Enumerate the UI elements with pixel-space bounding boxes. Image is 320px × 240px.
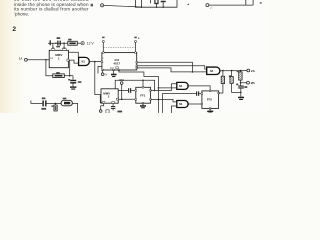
value speck: [244, 86, 247, 88]
page background: [0, 0, 267, 113]
FF1 upper out to N2: [151, 84, 177, 91]
fig1 left terminal label: [91, 4, 93, 7]
label speck C: [236, 84, 238, 86]
IC2 ground: [113, 70, 115, 74]
wire L1: [137, 62, 193, 72]
MMV2 bottom stub 2 with cap: [112, 103, 114, 106]
FF2 input capacitor: [196, 91, 197, 95]
cream left band: [0, 0, 27, 113]
IC2 bottom 0V terminal: [102, 70, 104, 73]
capacitor C1 plate: [50, 40, 51, 45]
FF2: [201, 90, 219, 109]
wire MMV1 pin down: [69, 60, 71, 76]
stadium resistor: [61, 100, 72, 106]
hanging resistor: [55, 103, 57, 105]
FF2 right pin riser: [219, 84, 223, 93]
value 100n: [41, 108, 46, 110]
MMV2 bottom stub left to terminal: [101, 103, 104, 110]
MMV2 top pin to bus A: [115, 80, 154, 90]
label R2: [68, 39, 71, 41]
output ground: [238, 97, 244, 99]
fig1 stub left: [245, 0, 247, 5]
wire N3 out to FF2: [187, 103, 202, 105]
wire N4 out to 2A: [220, 70, 247, 72]
fig1 box bottom rail: [136, 0, 178, 7]
wire W4: IC2 bottom pin to bus B: [119, 70, 158, 113]
svg-text:12 V: 12 V: [87, 42, 95, 46]
dashed supply rail: [103, 47, 135, 49]
node: [55, 103, 57, 105]
label C: [68, 79, 70, 81]
output resistor Rb: [231, 70, 233, 72]
wire N1 bus to MMV2: [95, 62, 102, 103]
svg-text:2: 2: [12, 26, 16, 33]
wire cap to FF1: [131, 89, 136, 91]
fig1 relay coil: [155, 0, 158, 4]
wire Rc to 2B and cap: [241, 80, 247, 83]
output resistor Rc: [240, 70, 242, 72]
MMV2 lower right pin wire: [118, 98, 122, 100]
IC2 supply stub 2: [135, 40, 137, 42]
wire N1 out to IC2: [89, 61, 102, 63]
label speck Rc: [237, 71, 239, 73]
fig1 left wire sloped: [104, 5, 141, 7]
output capacitor: [238, 86, 244, 87]
wire MMV1 top to N1: [68, 52, 78, 57]
wire C3 to node: [47, 102, 62, 104]
capacitor C3: [42, 100, 43, 106]
label C3: [42, 98, 46, 100]
fig1 left terminal circle: [101, 4, 104, 7]
IC2 supply stub 1: [102, 40, 136, 52]
wire out right down: [72, 103, 77, 113]
FF1 top pin from bus A line: [142, 80, 144, 87]
IC2 pin squares: [101, 61, 103, 63]
ground: [70, 86, 76, 87]
MMV2 pin boxes bottom: [103, 102, 105, 104]
node bus A top tap: [154, 90, 156, 92]
fig1 small mark: [210, 7, 212, 10]
fig1 capacitor: [161, 1, 166, 3]
wire MMV1 out to N1: [69, 60, 79, 63]
MMV2 pin box right: [116, 98, 118, 100]
wire MMV1 top pin drops: [52, 43, 54, 48]
IC2 left lower stub: [98, 66, 102, 73]
wire down to R1 row: [46, 60, 53, 76]
node L1/L3: [192, 71, 194, 73]
svg-text:4017: 4017: [113, 61, 120, 65]
terminal 2B: [247, 81, 250, 84]
value speck: [118, 111, 123, 113]
MMV2 out to coupling cap: [118, 89, 128, 91]
label speck: [63, 98, 67, 100]
supply labels: [102, 37, 105, 39]
fig1 blob mark: [187, 4, 189, 6]
label R1: [56, 72, 60, 74]
fig1 stem 1: [141, 0, 143, 7]
gate N2: [177, 82, 188, 89]
body text block: [14, 0, 89, 16]
label speck Rb: [229, 75, 231, 77]
FF1: [135, 87, 151, 105]
resistor R1: [53, 74, 65, 78]
fig1 terminal: [206, 4, 209, 7]
FF2 riser resistor Ra: [222, 70, 224, 72]
FF1 lower out to N3: [151, 99, 177, 102]
svg-text:’phone.: ’phone.: [14, 11, 29, 16]
resistor R2: [68, 41, 78, 45]
node: [69, 75, 71, 77]
supply rail 12V: [48, 42, 68, 44]
label C2: [57, 37, 61, 39]
FF2 bottom ground: [209, 108, 211, 110]
FF1 bottom ground: [142, 103, 144, 105]
capacitor C timing: [72, 76, 74, 80]
svg-text:FF1: FF1: [140, 93, 145, 97]
svg-text:0V: 0V: [104, 74, 107, 77]
terminal 12V: [81, 42, 84, 45]
coupling capacitor: [128, 88, 129, 93]
wire input to MMV1: [27, 59, 49, 61]
N3 lower input riser: [172, 106, 177, 113]
gate N3: [177, 101, 188, 108]
wire L3: [137, 68, 207, 72]
svg-text:FF2: FF2: [207, 98, 212, 102]
wire L2: [137, 66, 207, 69]
gate N4: [207, 67, 220, 74]
MMV2 bottom component box: [106, 110, 109, 113]
input terminal 1A: [25, 58, 28, 61]
fig1 mark right: [260, 2, 262, 3]
node dot: [63, 42, 65, 44]
node input junction: [45, 59, 47, 61]
FF2 cap feed riser V2: [163, 94, 197, 113]
label speck: [51, 105, 53, 107]
value C2: [56, 46, 60, 48]
MMV1 pin boxes top: [51, 49, 54, 51]
capacitor C2 plates: [57, 41, 58, 46]
terminal 2A: [247, 69, 250, 72]
fig1 tick: [149, 0, 151, 3]
gate N1: [79, 57, 90, 65]
wire N2 out to FF2 top: [187, 86, 210, 91]
MMV1: [49, 47, 69, 67]
svg-text:N1: N1: [82, 60, 86, 64]
MMV1 pin box right: [67, 59, 69, 61]
fig1 wire: [209, 4, 253, 6]
wire 16A down to FF1: [122, 84, 136, 99]
wire R1 to C1 node: [64, 75, 73, 77]
fig1 stub right: [252, 0, 254, 5]
node bus B taps: [158, 99, 160, 101]
wire stub: [31, 101, 43, 104]
IC2 4017: [101, 52, 137, 71]
value 10u: [78, 81, 82, 83]
N2 lower input from bus B: [158, 87, 176, 89]
node N1 out: [94, 61, 96, 63]
fig1 rail dots: [141, 7, 142, 8]
MMV2: [101, 89, 118, 103]
